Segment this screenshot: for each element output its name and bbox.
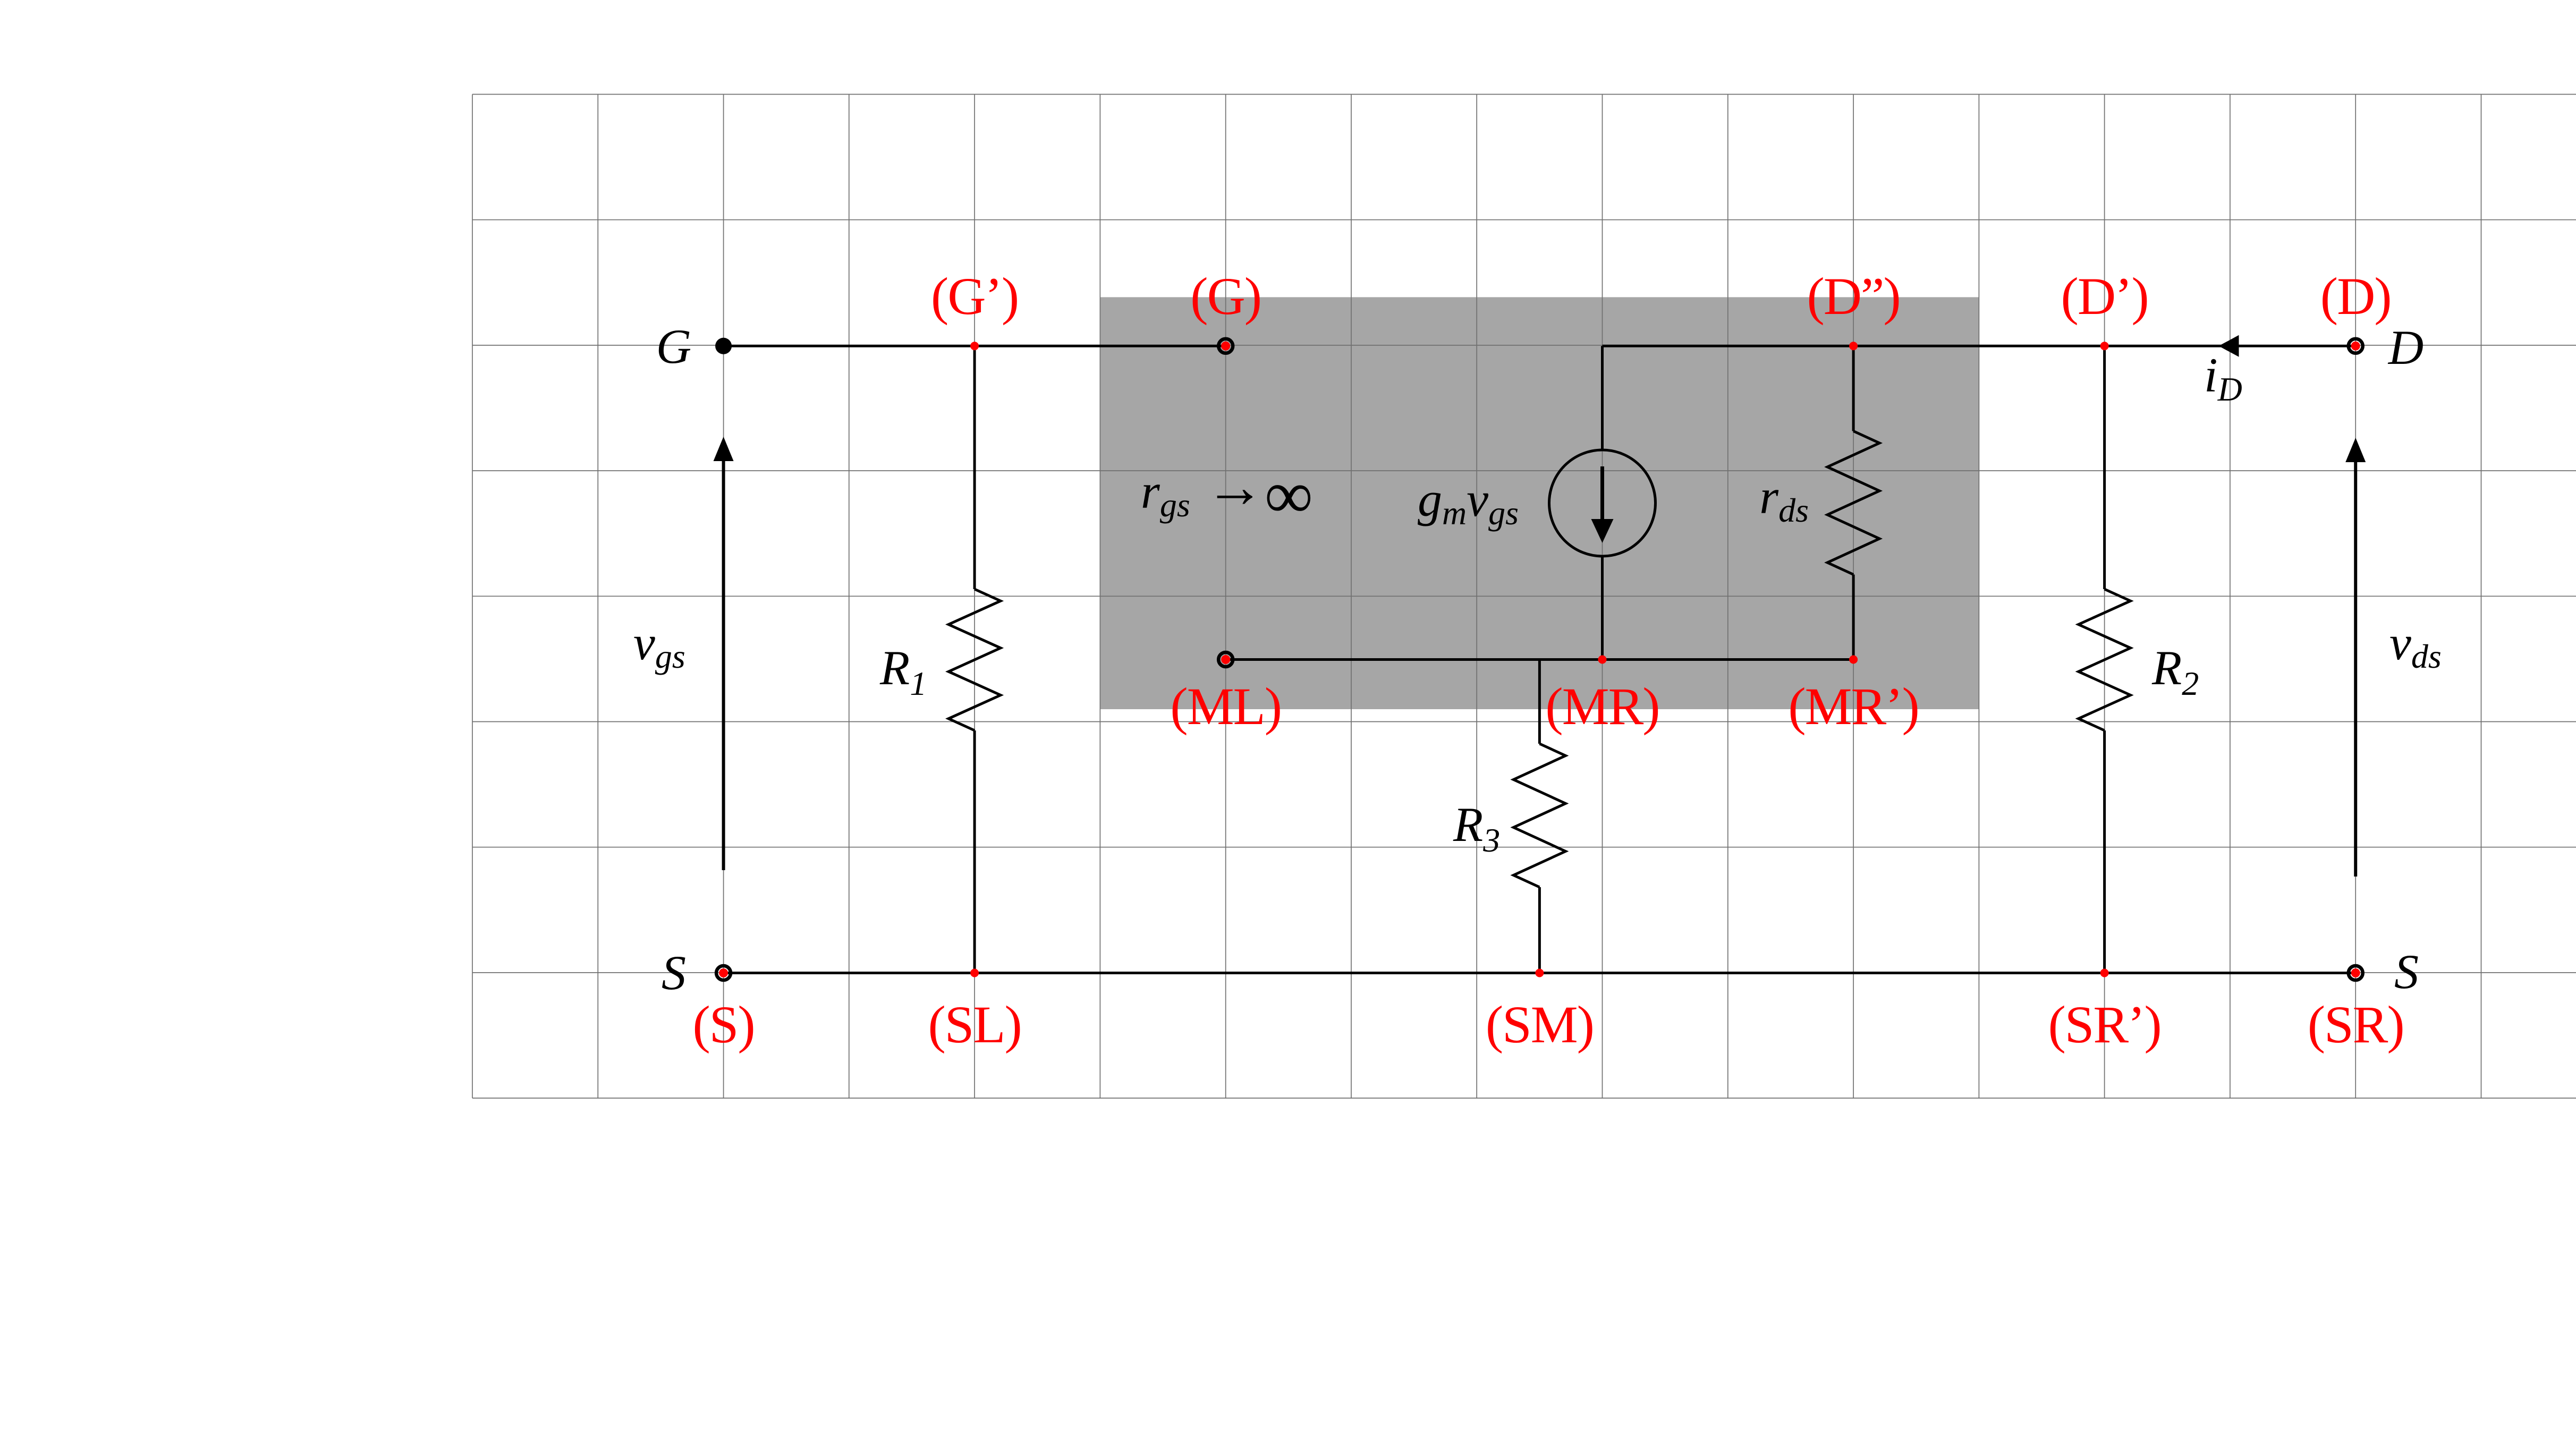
node (SR) (ring terminal)	[2349, 966, 2363, 980]
wire S rail: S to (SR)	[724, 972, 2356, 974]
svg-text:(SL): (SL)	[928, 995, 1021, 1054]
node G'	[970, 342, 979, 350]
resistor r_ds	[1827, 346, 1879, 659]
svg-text:D: D	[2387, 320, 2424, 375]
svg-text:(D): (D)	[2320, 267, 2391, 326]
arrow i_D	[2219, 335, 2239, 357]
node (ML) (ring terminal)	[1218, 652, 1233, 667]
node D'	[2100, 342, 2109, 350]
svg-text:(ML): (ML)	[1170, 677, 1281, 736]
svg-text:(SM): (SM)	[1486, 995, 1594, 1054]
current source U1 g_m v_gs	[1549, 346, 1656, 659]
resistor R3	[1513, 660, 1565, 973]
wire ML rail: (ML) to (MR')	[1226, 658, 1853, 661]
svg-text:(D”): (D”)	[1807, 267, 1900, 326]
arrow v_ds	[2354, 458, 2357, 877]
svg-text:S: S	[2394, 945, 2419, 999]
wire G rail: G to (G)	[724, 345, 1226, 347]
svg-text:(G’): (G’)	[931, 267, 1018, 326]
node MR'	[1849, 656, 1858, 664]
svg-text:(SR’): (SR’)	[2048, 995, 2160, 1054]
node (D) (ring terminal)	[2349, 339, 2363, 353]
node (S) (ring terminal)	[716, 966, 731, 980]
resistor R2	[2079, 346, 2131, 973]
node D''	[1849, 342, 1858, 350]
shaded small-signal model box	[1100, 297, 1979, 709]
arrow v_gs	[722, 457, 725, 870]
svg-text:(MR): (MR)	[1545, 677, 1659, 736]
wire top drain rail: current-source column to D	[1603, 345, 2356, 347]
node SR'	[2100, 969, 2109, 977]
svg-text:(G): (G)	[1190, 267, 1261, 326]
svg-text:(D’): (D’)	[2061, 267, 2148, 326]
node SL	[970, 969, 979, 977]
svg-text:G: G	[656, 319, 691, 373]
node SM	[1535, 969, 1544, 977]
node G (black terminal dot)	[715, 338, 732, 354]
svg-text:(S): (S)	[692, 995, 754, 1054]
coordinate grid	[472, 95, 2576, 1099]
svg-text:(MR’): (MR’)	[1788, 677, 1919, 736]
node (G) (ring terminal)	[1218, 339, 1233, 353]
svg-text:(SR): (SR)	[2308, 995, 2404, 1054]
resistor R1	[948, 346, 1001, 973]
svg-text:S: S	[662, 946, 686, 1000]
node MR	[1598, 656, 1607, 664]
